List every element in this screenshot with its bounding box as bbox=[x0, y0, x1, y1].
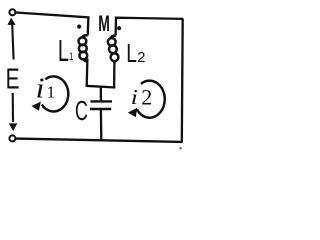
coupling dot L2 bbox=[117, 26, 121, 30]
wire L2 bottom bbox=[113, 62, 116, 88]
wire right edge bbox=[181, 19, 184, 143]
wire L1 bottom bbox=[86, 59, 89, 87]
inductor L1 bbox=[79, 35, 88, 61]
terminal T1 top-left bbox=[9, 9, 15, 15]
label i2 bbox=[131, 85, 153, 110]
svg-text:2: 2 bbox=[141, 85, 152, 110]
svg-text:1: 1 bbox=[47, 83, 56, 102]
wire bottom rail bbox=[16, 139, 183, 142]
terminal T2 bottom-left bbox=[9, 135, 15, 141]
arrow down (E source) bbox=[12, 93, 14, 122]
svg-text:M: M bbox=[98, 11, 110, 36]
capacitor C plates bbox=[91, 100, 113, 102]
mesh current i2 arc bbox=[137, 81, 165, 118]
svg-text:i: i bbox=[36, 72, 45, 104]
stray scan mark bottom right bbox=[180, 147, 182, 149]
mesh current i2 arrowhead bbox=[128, 108, 137, 117]
wire top rail left to L1 bbox=[16, 13, 89, 36]
arrow up (E source) bbox=[7, 18, 15, 25]
svg-text:i: i bbox=[131, 86, 138, 109]
svg-text:2: 2 bbox=[137, 50, 145, 66]
wire junction horizontal bbox=[86, 86, 116, 88]
wire top rail right + L2 corner bbox=[116, 18, 183, 36]
inductor L2 bbox=[108, 36, 119, 64]
svg-text:L: L bbox=[58, 35, 69, 68]
svg-text:L: L bbox=[126, 38, 137, 68]
coupling dot L1 bbox=[77, 25, 81, 29]
capacitor C bottom lead bbox=[100, 110, 103, 140]
mesh current i1 arrowhead bbox=[32, 102, 41, 111]
capacitor C top lead bbox=[100, 86, 102, 100]
svg-text:1: 1 bbox=[69, 51, 73, 64]
svg-text:E: E bbox=[6, 63, 20, 95]
mesh current i1 arc bbox=[42, 76, 69, 111]
svg-text:C: C bbox=[75, 95, 88, 126]
label i1 bbox=[36, 72, 56, 104]
label L2 bbox=[126, 38, 145, 68]
label L1 bbox=[58, 35, 73, 68]
